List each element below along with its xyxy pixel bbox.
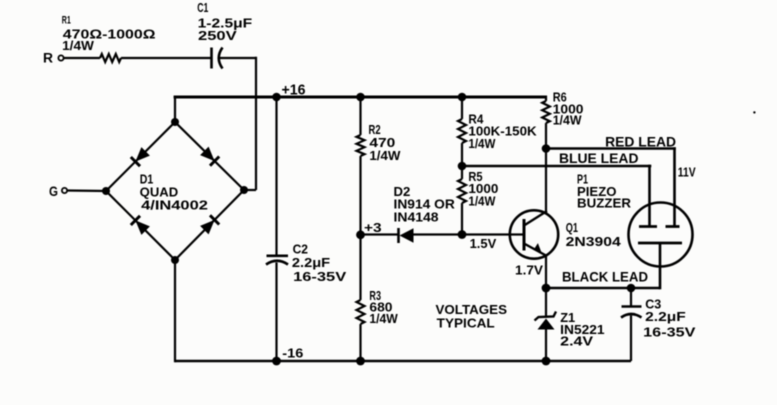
resistor R1	[62, 15, 156, 63]
svg-text:2N3904: 2N3904	[566, 234, 622, 249]
svg-text:+3: +3	[364, 220, 382, 235]
node R6/collector/red lead	[542, 144, 551, 153]
svg-text:Q1: Q1	[566, 221, 578, 235]
label 1.5V	[470, 236, 497, 251]
wire black lead to C3	[630, 288, 632, 306]
wire R4 to blue node	[461, 143, 463, 166]
svg-text:R1: R1	[62, 15, 71, 27]
buzzer P1 circle	[577, 173, 693, 267]
wire +16 to R2	[359, 97, 361, 135]
svg-text:470: 470	[369, 136, 395, 150]
svg-text:16-35V: 16-35V	[643, 325, 696, 340]
svg-text:R2: R2	[369, 123, 381, 137]
resistor R4	[458, 113, 537, 151]
+16 rail wire	[174, 96, 546, 99]
-16 rail wire	[175, 360, 631, 362]
wire blue node to R5	[461, 166, 463, 179]
node R4/R5/blue lead	[458, 162, 467, 171]
capacitor C1	[197, 1, 252, 68]
wire C2 to -16 rail	[275, 263, 277, 362]
zener Z1	[535, 310, 605, 349]
wire base	[462, 233, 524, 235]
svg-text:250V: 250V	[198, 28, 237, 43]
node bridge top	[171, 118, 179, 126]
label BLUE LEAD	[559, 150, 639, 166]
terminal G	[49, 184, 67, 199]
node -16/Z1	[542, 357, 551, 366]
wire red lead horizontal	[546, 147, 676, 150]
node -16/C2	[272, 357, 281, 366]
label 11V	[678, 165, 696, 180]
node +16/R4	[458, 93, 467, 102]
svg-text:2.4V: 2.4V	[560, 334, 593, 349]
wire +3 to D2	[361, 233, 399, 235]
wire R3 to -16 rail	[359, 324, 361, 361]
node black lead/C3	[627, 284, 636, 293]
transistor Q1	[510, 210, 622, 258]
svg-text:1/4W: 1/4W	[553, 113, 582, 127]
terminal R	[43, 51, 64, 66]
wire bridge bottom to -16 rail	[174, 260, 176, 362]
svg-text:11V: 11V	[678, 165, 696, 180]
label D1	[140, 172, 208, 212]
svg-text:1/4W: 1/4W	[468, 195, 495, 209]
buzzer blue plate	[639, 225, 657, 228]
wire C1 down to bridge right node	[244, 57, 256, 190]
svg-text:C1: C1	[197, 1, 208, 15]
node +3	[356, 230, 365, 239]
resistor R6	[542, 91, 583, 128]
svg-text:1.5V: 1.5V	[470, 236, 497, 251]
node +16/C2	[272, 93, 281, 102]
svg-text:2.2μF: 2.2μF	[292, 255, 330, 270]
label VOLTAGES TYPICAL	[436, 302, 508, 331]
svg-text:IN4148: IN4148	[394, 210, 439, 225]
diode D1c (bottom-left, points to left node)	[131, 216, 150, 235]
wire blue lead down	[648, 165, 651, 227]
node -16/R3	[356, 357, 365, 366]
wire R6 to red node	[545, 123, 547, 149]
svg-text:1/4W: 1/4W	[369, 312, 398, 326]
wire blue lead horizontal	[462, 165, 651, 168]
wire emitter	[545, 255, 547, 288]
label BLACK LEAD	[562, 269, 648, 285]
diode D1a (top-left, points to left node)	[131, 147, 150, 166]
svg-text:2.2μF: 2.2μF	[645, 309, 686, 324]
bridge D1 bottom-right arm wire	[175, 190, 244, 260]
svg-text:16-35V: 16-35V	[293, 269, 347, 284]
wire collector	[545, 149, 547, 212]
svg-text:1/4W: 1/4W	[62, 38, 95, 53]
wire black lead to Z1	[545, 288, 547, 317]
buzzer case plate	[638, 242, 682, 245]
resistor R5	[458, 170, 498, 209]
wire R1 to C1	[121, 57, 211, 59]
svg-text:BLUE LEAD: BLUE LEAD	[559, 150, 639, 166]
wire black lead	[546, 287, 660, 290]
buzzer red plate	[666, 225, 680, 228]
svg-text:-16: -16	[282, 346, 303, 361]
resistor R2	[357, 123, 401, 163]
label 1.7V	[515, 263, 543, 278]
node bridge right	[240, 186, 248, 194]
wire R2 to +3 node	[359, 156, 361, 235]
wire bridge top to +16 rail	[174, 96, 176, 122]
node bridge left	[102, 187, 110, 195]
label +3	[364, 220, 382, 235]
svg-text:D1: D1	[140, 172, 154, 186]
svg-text:BUZZER: BUZZER	[577, 196, 631, 210]
wire buzzer case down	[659, 244, 662, 290]
diode D1d (bottom-right, points to right node)	[200, 215, 219, 234]
node emitter/black lead	[542, 284, 551, 293]
wire +16 to R4	[461, 97, 463, 119]
wire red lead down	[673, 147, 676, 226]
svg-text:G: G	[49, 184, 58, 199]
wire D2 to base node	[414, 233, 463, 235]
diode D1b (top-right, points to right node)	[200, 147, 219, 166]
svg-text:R: R	[43, 51, 53, 66]
wire R5 to base node	[461, 203, 463, 235]
label +16	[282, 83, 306, 99]
node bridge bottom	[171, 256, 179, 264]
capacitor C2	[266, 243, 347, 285]
node D2/R5/base	[458, 230, 467, 239]
svg-text:TYPICAL: TYPICAL	[437, 316, 495, 331]
svg-text:1/4W: 1/4W	[468, 137, 495, 151]
wire C3 to -16 rail	[630, 316, 632, 362]
node +16/R2	[356, 93, 365, 102]
wire R to R1	[64, 57, 100, 59]
bridge D1 bottom-left arm wire	[106, 191, 175, 260]
capacitor C3	[621, 297, 696, 340]
wire C1 right	[219, 57, 256, 59]
svg-text:RED LEAD: RED LEAD	[605, 133, 676, 149]
svg-text:+16: +16	[282, 83, 306, 99]
svg-text:1/4W: 1/4W	[369, 149, 400, 163]
bridge D1 top-left arm wire	[106, 122, 175, 191]
wire G to bridge left node	[67, 189, 106, 192]
wire Z1 to -16 rail	[545, 330, 547, 362]
wire +16 to C2	[275, 97, 277, 256]
svg-text:BLACK LEAD: BLACK LEAD	[562, 269, 648, 285]
wire +3 to R3	[359, 235, 361, 301]
wire +16 rail to R6	[545, 96, 547, 102]
diode D2	[394, 184, 456, 243]
resistor R3	[357, 289, 398, 326]
svg-text:1.7V: 1.7V	[515, 263, 543, 278]
label -16	[282, 346, 303, 361]
svg-text:4/IN4002: 4/IN4002	[141, 199, 208, 213]
bridge D1 top-right arm wire	[175, 122, 244, 190]
label RED LEAD	[605, 133, 676, 149]
